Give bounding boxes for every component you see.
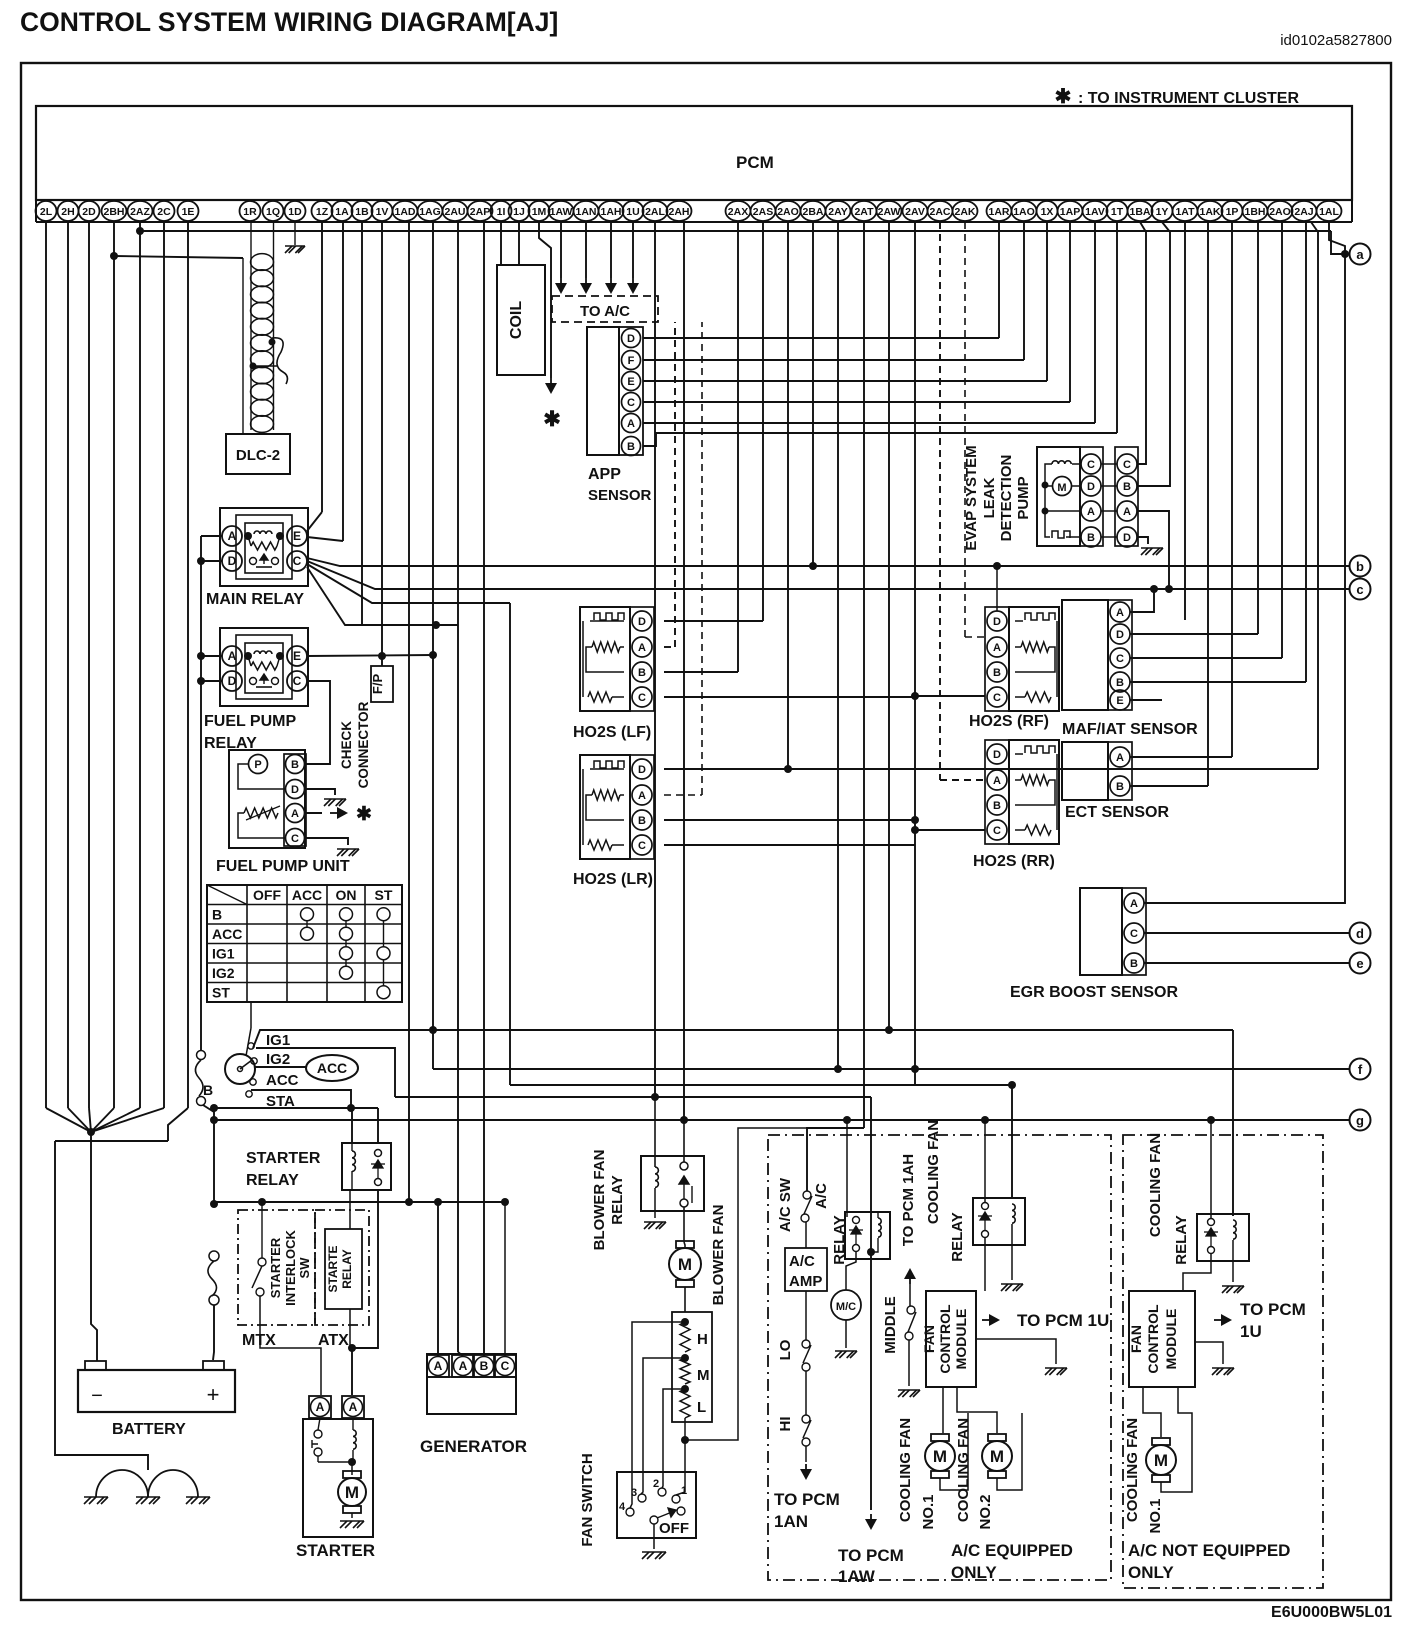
svg-text:✱: ✱	[543, 408, 561, 431]
svg-text:STARTE: STARTE	[326, 1245, 340, 1292]
EVAP heater	[1072, 463, 1081, 465]
svg-text:2AS: 2AS	[753, 206, 773, 218]
svg-text:2AV: 2AV	[905, 206, 925, 218]
HO2S heater element	[1015, 753, 1023, 755]
EGR pin B	[1124, 953, 1144, 973]
blower resistor H	[681, 1318, 689, 1326]
svg-text:2AL: 2AL	[645, 206, 665, 218]
HO2S (LF) sensor	[580, 607, 630, 711]
PCM pin 2D	[79, 201, 100, 221]
svg-text:CONTROL: CONTROL	[937, 1304, 953, 1374]
PCM pin 2AJ	[1292, 201, 1317, 221]
svg-text:FAN: FAN	[1128, 1325, 1144, 1353]
HO2S (RF) sensor	[1009, 607, 1059, 711]
svg-text:1B: 1B	[355, 206, 369, 218]
PCM pin 1AN	[574, 201, 599, 221]
wire 2AZ ground bus to node a	[136, 227, 144, 235]
svg-text:DLC-2: DLC-2	[236, 447, 280, 464]
HO2S heater element	[590, 620, 624, 622]
fuel pump relay pin C	[287, 671, 307, 691]
svg-text:1: 1	[681, 1485, 687, 1497]
svg-text:4: 4	[619, 1501, 626, 1513]
PCM pin 2BA	[801, 201, 826, 221]
svg-text:C: C	[1116, 653, 1124, 665]
PCM pin 2AH	[667, 201, 692, 221]
EVAP pump connector 2	[1115, 447, 1138, 546]
svg-text:STARTER: STARTER	[268, 1237, 283, 1298]
starter box	[303, 1419, 373, 1537]
main relay pin D	[222, 551, 242, 571]
EGR pin A	[1124, 893, 1144, 913]
svg-text:FUEL PUMP: FUEL PUMP	[204, 713, 296, 730]
wire bundle left pins down to battery funnel	[45, 222, 47, 1108]
APP sensor connector	[619, 327, 643, 455]
svg-text:C: C	[1130, 928, 1138, 940]
svg-text:1AP: 1AP	[1060, 206, 1080, 218]
table contact B-ST	[377, 908, 390, 921]
PCM pin 2AL	[643, 201, 668, 221]
wire 2AY to node f	[837, 222, 839, 1069]
wire EVAP B2 to 1Y	[1137, 222, 1170, 486]
svg-text:MIDDLE: MIDDLE	[882, 1296, 899, 1354]
wire resistor bottom to switch	[684, 1418, 686, 1440]
svg-text:A: A	[291, 808, 299, 820]
PCM pin 2AW	[877, 201, 902, 221]
svg-text:C: C	[993, 692, 1001, 704]
svg-text:D: D	[993, 749, 1001, 761]
PCM pin 2C	[154, 201, 175, 221]
wire to PCM 1AW drop	[870, 1097, 872, 1510]
svg-text:LO: LO	[777, 1339, 794, 1360]
PCM pin 1I	[491, 201, 512, 221]
node f line	[433, 1068, 1349, 1070]
ATX dash box	[315, 1210, 369, 1325]
ground arcs	[96, 1470, 148, 1497]
starter relay K3	[342, 1143, 391, 1190]
PCM pin 2AC	[928, 201, 953, 221]
svg-text:A: A	[638, 790, 646, 802]
svg-text:TO PCM 1AH: TO PCM 1AH	[900, 1154, 917, 1246]
wire 1AL to node a	[1329, 222, 1345, 254]
svg-text:B: B	[203, 1082, 213, 1098]
svg-text:2D: 2D	[82, 206, 96, 218]
svg-text:TO PCM: TO PCM	[838, 1546, 904, 1565]
PCM pin 1AP	[1058, 201, 1083, 221]
EVAP pump pin C	[1081, 454, 1101, 474]
wire module to PCM 1U	[982, 1319, 996, 1321]
PCM pin 1V	[372, 201, 393, 221]
svg-text:E: E	[293, 649, 301, 663]
wire HI to PCM 1AN	[805, 1446, 807, 1462]
node f	[1350, 1059, 1371, 1080]
svg-text:RELAY: RELAY	[949, 1212, 966, 1261]
blower resistor M	[681, 1354, 689, 1362]
wire LF D to 2AS	[664, 620, 763, 622]
svg-text:1I: 1I	[497, 206, 506, 218]
svg-text:CONTROL SYSTEM WIRING DIAGRAM[: CONTROL SYSTEM WIRING DIAGRAM[AJ]	[20, 7, 558, 37]
svg-text:M: M	[990, 1447, 1004, 1466]
svg-text:IG2: IG2	[212, 965, 235, 981]
svg-text:ON: ON	[336, 887, 357, 903]
svg-text:A/C SW: A/C SW	[777, 1177, 794, 1232]
node a	[1350, 244, 1371, 265]
ground left	[84, 1497, 108, 1504]
wire interlock to bus	[261, 1202, 263, 1258]
APP pin A	[622, 414, 641, 433]
wire MAF B to 2AJ	[1130, 681, 1306, 683]
svg-text:FAN SWITCH: FAN SWITCH	[579, 1453, 596, 1546]
HO2S heater resistor	[1056, 621, 1058, 697]
svg-text:E6U000BW5L01: E6U000BW5L01	[1271, 1604, 1392, 1621]
fuel pump level resistor	[244, 808, 278, 818]
svg-text:A: A	[993, 642, 1001, 654]
node b	[1350, 556, 1371, 577]
A/C amplifier	[805, 1222, 807, 1248]
EVAP reference	[1042, 508, 1049, 515]
svg-text:1AT: 1AT	[1175, 206, 1195, 218]
fan switch ground	[653, 1524, 655, 1549]
svg-text:ACC: ACC	[292, 887, 322, 903]
fan control module 2	[1129, 1291, 1195, 1387]
wire B to junction	[203, 1105, 214, 1204]
EVAP pump connector 1	[1080, 447, 1103, 546]
main relay pin A	[222, 526, 242, 546]
wire relay to fan module	[984, 1238, 986, 1291]
svg-text:2AC: 2AC	[929, 206, 950, 218]
wire EVAP C2 to 1BA	[1137, 222, 1146, 464]
svg-text:COOLING FAN: COOLING FAN	[955, 1418, 972, 1522]
svg-text:2H: 2H	[61, 206, 74, 218]
svg-text:A/C EQUIPPED: A/C EQUIPPED	[951, 1541, 1073, 1560]
ground middle	[136, 1497, 160, 1504]
MAF pin B	[1110, 672, 1130, 692]
EVAP connector pin C	[1117, 454, 1137, 474]
svg-text:MAF/IAT SENSOR: MAF/IAT SENSOR	[1062, 721, 1198, 738]
EVAP pump pin A	[1081, 501, 1101, 521]
generator pin A1	[427, 1355, 449, 1377]
PCM pin 2AO	[776, 201, 801, 221]
HO2S sense resistor	[592, 642, 620, 652]
PCM pin 2L	[36, 201, 57, 221]
wire 1U to A/C	[632, 222, 634, 278]
wire starter relay contact to starter motor	[352, 1190, 378, 1395]
HO2S sense resistor	[1021, 642, 1049, 652]
PCM pin 1AL	[1317, 201, 1342, 221]
svg-text:2AP: 2AP	[470, 206, 490, 218]
svg-text:C: C	[993, 825, 1001, 837]
svg-text:TO PCM 1U: TO PCM 1U	[1017, 1311, 1109, 1330]
svg-text:3: 3	[631, 1487, 637, 1499]
svg-text:H: H	[697, 1331, 708, 1348]
starter interlock switch box MTX	[238, 1210, 315, 1325]
A/C equipped dash box	[768, 1135, 1111, 1580]
wire 2BA to node b	[812, 222, 814, 566]
svg-text:B: B	[212, 907, 222, 923]
starter ground	[351, 1513, 353, 1518]
PCM pin 1BA	[1128, 201, 1153, 221]
svg-text:A: A	[434, 1359, 443, 1373]
svg-text:1X: 1X	[1041, 206, 1054, 218]
EVAP switch element	[1045, 511, 1050, 537]
svg-text:M: M	[697, 1367, 710, 1384]
svg-text:A: A	[459, 1359, 468, 1373]
HO2S pin B	[987, 795, 1007, 815]
svg-text:EVAP SYSTEM: EVAP SYSTEM	[963, 445, 980, 550]
PCM pin 1AR	[987, 201, 1012, 221]
svg-text:COOLING FAN: COOLING FAN	[897, 1418, 914, 1522]
svg-text:2AY: 2AY	[828, 206, 847, 218]
HO2S pin D	[987, 611, 1007, 631]
A/C not equipped dash box	[1123, 1135, 1323, 1588]
A/C relay coil	[877, 1212, 879, 1218]
PCM pin 1P	[1222, 201, 1243, 221]
svg-text:SW: SW	[297, 1257, 312, 1279]
svg-text:RELAY: RELAY	[340, 1249, 354, 1289]
table contact ACC-ACC	[301, 927, 314, 940]
PCM pin 1AH	[599, 201, 624, 221]
svg-text:f: f	[1358, 1062, 1363, 1077]
svg-text:ECT SENSOR: ECT SENSOR	[1065, 804, 1169, 821]
svg-text:b: b	[1356, 559, 1364, 574]
svg-text:1R: 1R	[243, 206, 257, 218]
node e	[1350, 953, 1371, 974]
PCM pin 1X	[1037, 201, 1058, 221]
svg-text:1J: 1J	[513, 206, 525, 218]
PCM pin 1AW	[549, 201, 574, 221]
svg-text:A/C: A/C	[813, 1183, 830, 1209]
wire 2AT to A/C switch	[863, 222, 865, 1128]
fuel pump relay pin A	[222, 646, 242, 666]
svg-text:d: d	[1356, 926, 1364, 941]
svg-text:ST: ST	[212, 985, 230, 1001]
ACC terminal ellipse	[306, 1055, 358, 1081]
PCM pin 2BH	[102, 201, 127, 221]
svg-text:A: A	[1116, 607, 1124, 619]
HO2S (RR) sensor	[1009, 740, 1059, 844]
MAF pin D	[1110, 624, 1130, 644]
PCM pin 1A	[332, 201, 353, 221]
svg-text:2C: 2C	[157, 206, 171, 218]
HO2S heater resistor	[1056, 754, 1058, 830]
svg-text:1Y: 1Y	[1156, 206, 1169, 218]
ignition switch	[225, 1054, 255, 1084]
ignition coil box	[497, 265, 545, 375]
svg-text:g: g	[1356, 1113, 1364, 1128]
fuel pump relay K2	[220, 628, 308, 706]
module2 ground	[1195, 1342, 1223, 1364]
svg-text:DETECTION: DETECTION	[998, 455, 1015, 542]
wire module2 to PCM 1U	[1214, 1319, 1228, 1321]
svg-text:ST: ST	[375, 887, 393, 903]
svg-text:A: A	[638, 642, 646, 654]
wire fuel pump C to ground	[305, 838, 348, 845]
wire 1Q twisted pair	[273, 222, 275, 256]
blower relay ground	[644, 1222, 666, 1229]
svg-text:2BH: 2BH	[103, 206, 124, 218]
svg-text:2AX: 2AX	[728, 206, 748, 218]
svg-text:1P: 1P	[1226, 206, 1239, 218]
PCM pin 2H	[58, 201, 79, 221]
svg-text:✱: ✱	[1055, 86, 1072, 108]
svg-text:MODULE: MODULE	[1163, 1309, 1179, 1370]
svg-text:A: A	[1123, 506, 1131, 518]
svg-text:D: D	[638, 616, 646, 628]
wire battery minus drop	[91, 1141, 97, 1358]
svg-text:C: C	[501, 1359, 510, 1373]
wire LF B to 2AX	[664, 671, 738, 673]
ignition switch table	[207, 885, 402, 1002]
PCM pin 1U	[623, 201, 644, 221]
svg-text:ACC: ACC	[212, 926, 242, 942]
PCM pin 1AK	[1198, 201, 1223, 221]
svg-text:1AW: 1AW	[550, 206, 573, 218]
wire EVAP A2 to node c	[1137, 511, 1169, 589]
PCM pin 2AS	[751, 201, 776, 221]
svg-text:HO2S (LF): HO2S (LF)	[573, 724, 651, 741]
wire LR B to bus	[664, 819, 915, 821]
node c	[1350, 579, 1371, 600]
B terminal switch	[197, 1051, 206, 1060]
svg-text:A: A	[228, 649, 237, 663]
svg-text:B: B	[1116, 677, 1124, 689]
fuel pump relay pin E	[287, 646, 307, 666]
svg-text:C: C	[638, 840, 646, 852]
svg-text:1D: 1D	[288, 206, 302, 218]
wire fuel pump relay D junction	[201, 680, 222, 682]
svg-text:1BA: 1BA	[1129, 206, 1150, 218]
svg-text:B: B	[291, 759, 299, 771]
wire junction to starter relay	[214, 1107, 378, 1109]
wire main relay E to 1Z diagonal	[307, 512, 322, 531]
svg-text:C: C	[1123, 459, 1131, 471]
svg-text:C: C	[638, 692, 646, 704]
EVAP pump pin D	[1081, 476, 1101, 496]
HO2S pin C	[632, 687, 652, 707]
svg-text:D: D	[1116, 629, 1124, 641]
wire fuel pump A to cluster	[305, 812, 322, 814]
EVAP connector pin D	[1117, 527, 1137, 547]
svg-text:A: A	[349, 1400, 358, 1414]
svg-text:RELAY: RELAY	[609, 1175, 626, 1224]
svg-text:D: D	[638, 764, 646, 776]
svg-text:M: M	[345, 1483, 359, 1502]
funnel junction to battery positive	[46, 1108, 91, 1132]
PCM pin 1M	[529, 201, 550, 221]
PCM pin 2AU	[443, 201, 468, 221]
blower resistor L	[681, 1385, 689, 1393]
MAF pin A	[1110, 602, 1130, 622]
PCM pin 1D	[285, 201, 306, 221]
wire LR C to bus	[664, 844, 915, 846]
svg-text:B: B	[1123, 481, 1131, 493]
PCM pin 1B	[352, 201, 373, 221]
svg-text:A: A	[1087, 506, 1095, 518]
svg-text:M: M	[678, 1255, 692, 1274]
wire EGR A to node a riser	[1144, 254, 1345, 903]
svg-text:ACC: ACC	[266, 1072, 299, 1089]
svg-text:1AW: 1AW	[838, 1567, 876, 1586]
svg-text:C: C	[293, 554, 302, 568]
wire resistor taps	[630, 1322, 685, 1508]
svg-text:1U: 1U	[626, 206, 639, 218]
svg-text:C: C	[1087, 459, 1095, 471]
svg-text:C: C	[291, 833, 299, 845]
svg-text:1T: 1T	[1111, 206, 1124, 218]
svg-text:−: −	[91, 1385, 103, 1407]
wire APP F to 1AO	[643, 359, 1024, 361]
wire 2AP to generator B	[483, 222, 485, 1357]
svg-text:1AO: 1AO	[1013, 206, 1035, 218]
starter solenoid switch	[314, 1430, 322, 1438]
svg-text:A: A	[993, 775, 1001, 787]
svg-text:BATTERY: BATTERY	[112, 1421, 186, 1438]
svg-text:D: D	[291, 784, 299, 796]
PCM pin 1E	[178, 201, 199, 221]
svg-text:1AG: 1AG	[419, 206, 441, 218]
svg-text:E: E	[1116, 695, 1123, 707]
wire main relay C fanout to node c	[307, 561, 1349, 589]
svg-text:a: a	[1356, 247, 1364, 262]
wire 1AG down to node f line	[432, 222, 434, 1069]
HO2S pin A	[632, 785, 652, 805]
svg-text:1BH: 1BH	[1244, 206, 1265, 218]
HO2S pin A	[987, 770, 1007, 790]
wire 2AU to generator A2	[457, 222, 459, 1352]
fuel pump unit pin B	[286, 755, 305, 774]
wire to ground arcs	[55, 1141, 148, 1470]
PCM pin 2AV	[903, 201, 928, 221]
svg-text:NO.2: NO.2	[977, 1494, 994, 1529]
svg-text:NO.1: NO.1	[1147, 1498, 1164, 1533]
PCM pin 1J	[509, 201, 530, 221]
fuel pump unit pin P	[249, 755, 268, 774]
wire main relay D junction	[201, 560, 222, 562]
PCM pin 1T	[1107, 201, 1128, 221]
fuel pump unit pin A	[286, 804, 305, 823]
table contact B-ACC	[301, 908, 314, 921]
wire ATX relay to starter	[349, 1309, 351, 1348]
svg-text:COOLING FAN: COOLING FAN	[1147, 1133, 1164, 1237]
PCM pin 2AP	[468, 201, 493, 221]
ATX starter relay box	[325, 1229, 362, 1309]
APP pin B	[622, 437, 641, 456]
wire MAF C to 2AO	[1130, 657, 1282, 659]
svg-text:2AK: 2AK	[954, 206, 975, 218]
PCM pin 1Y	[1152, 201, 1173, 221]
svg-text:id0102a5827800: id0102a5827800	[1280, 32, 1392, 49]
svg-text:M: M	[1057, 482, 1066, 494]
HO2S pin C	[987, 687, 1007, 707]
starter interlock switch	[258, 1258, 266, 1266]
fuel pump unit pin C	[286, 829, 305, 848]
svg-text:HO2S (RR): HO2S (RR)	[973, 853, 1055, 870]
HO2S pin B	[632, 662, 652, 682]
svg-text:2BA: 2BA	[802, 206, 823, 218]
wire RF D up to node b	[996, 566, 998, 611]
svg-text:COOLING FAN: COOLING FAN	[1124, 1418, 1141, 1522]
svg-text:F/P: F/P	[370, 674, 385, 695]
PCM pin 2AX	[726, 201, 751, 221]
svg-text:M/C: M/C	[836, 1301, 856, 1313]
HO2S (LR) sensor	[580, 755, 630, 859]
wire 1AD to ATX bus	[408, 222, 410, 1202]
svg-text:ONLY: ONLY	[951, 1563, 997, 1582]
svg-text:A: A	[1116, 752, 1124, 764]
svg-text:D: D	[993, 616, 1001, 628]
wire 1AT stub	[1184, 222, 1186, 620]
MAF pin E	[1110, 690, 1130, 710]
wire module to cooling fans	[942, 1387, 944, 1433]
